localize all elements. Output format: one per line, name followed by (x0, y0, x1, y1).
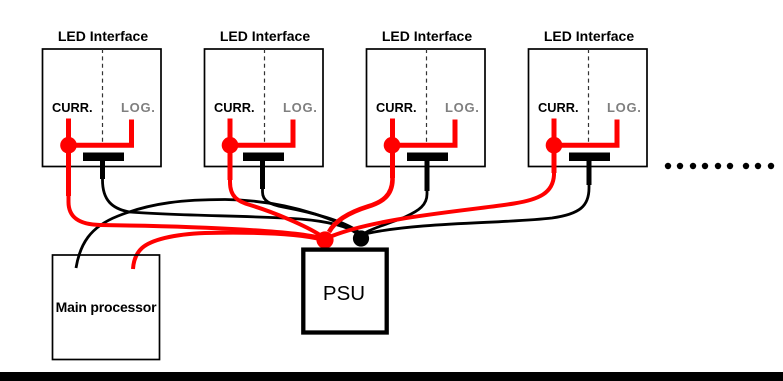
continuation dots (665, 163, 774, 169)
wire black box4 LOG to PSU junction (367, 157, 589, 234)
bottom black band (image artifact strip) (0, 372, 783, 381)
red lead CURR 3 (390, 119, 395, 179)
black connector bar 3 (407, 153, 448, 162)
red L connector to LOG side 1 (69, 120, 132, 146)
red lead CURR 4 (552, 119, 557, 174)
red junction dot 2 (222, 137, 239, 154)
wire black Main processor to PSU junction (76, 200, 358, 269)
black stem 3 (425, 161, 430, 191)
red junction dot 4 (546, 137, 563, 154)
svg-text:LED Interface: LED Interface (58, 28, 148, 44)
LED interface module 3 (367, 28, 486, 191)
red L connector to LOG side 4 (554, 120, 617, 146)
svg-text:LOG.: LOG. (607, 100, 642, 115)
junction node red (+) above PSU (316, 231, 333, 248)
Main processor box (53, 255, 160, 360)
box outline 3 (367, 49, 486, 167)
svg-text:LED Interface: LED Interface (220, 28, 310, 44)
svg-text:LED Interface: LED Interface (382, 28, 472, 44)
wire red PSU junction to Main processor (133, 233, 322, 269)
wire red box2 CURR to PSU junction (230, 130, 320, 235)
red lead CURR 1 (66, 119, 71, 197)
box outline 1 (43, 49, 162, 167)
wire black box2 LOG to PSU junction (263, 157, 359, 232)
svg-text:Main processor: Main processor (56, 299, 157, 315)
wire black box1 LOG to PSU junction (103, 157, 357, 233)
black connector bar 4 (569, 153, 610, 162)
svg-text:CURR.: CURR. (538, 100, 579, 115)
junction node black (-) above PSU (353, 230, 369, 246)
svg-text:CURR.: CURR. (214, 100, 255, 115)
wire red box3 CURR to PSU junction (329, 130, 393, 232)
svg-text:CURR.: CURR. (376, 100, 417, 115)
dashed divider 3 (426, 49, 428, 146)
svg-text:CURR.: CURR. (52, 100, 93, 115)
black connector bar 2 (243, 153, 284, 162)
LED interface module 1 (43, 28, 162, 196)
box outline 2 (205, 49, 324, 167)
LED interface module 4 (529, 28, 648, 185)
dashed divider 1 (102, 49, 104, 146)
dashed divider 4 (588, 49, 590, 146)
red lead CURR 2 (228, 119, 233, 181)
black stem 4 (587, 161, 592, 185)
black stem 2 (260, 161, 265, 189)
svg-text:LOG.: LOG. (121, 100, 156, 115)
red L connector to LOG side 3 (392, 120, 455, 146)
PSU box (303, 250, 386, 333)
LED interface module 2 (205, 28, 324, 189)
svg-text:PSU: PSU (323, 282, 365, 305)
svg-text:LED Interface: LED Interface (544, 28, 634, 44)
red junction dot 1 (60, 137, 77, 154)
svg-text:LOG.: LOG. (283, 100, 318, 115)
wire red box4 CURR to PSU junction (332, 130, 554, 236)
wire black box3 LOG to PSU junction (365, 157, 427, 233)
box outline 4 (529, 49, 648, 167)
wire red box1 CURR to PSU junction (69, 130, 322, 238)
red junction dot 3 (384, 137, 401, 154)
dashed divider 2 (264, 49, 266, 146)
svg-text:LOG.: LOG. (445, 100, 480, 115)
red L connector to LOG side 2 (230, 120, 293, 146)
black connector bar 1 (83, 153, 124, 162)
black stem 1 (100, 161, 105, 179)
